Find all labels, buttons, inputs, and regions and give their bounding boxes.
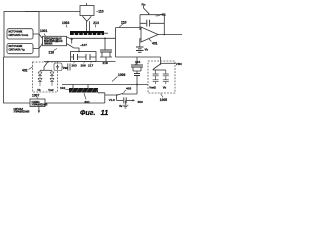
svg-text:ВОЛНОВОДНАЯ: ВОЛНОВОДНАЯ xyxy=(44,40,63,43)
svg-text:СИГНАЛА Vg: СИГНАЛА Vg xyxy=(9,49,26,52)
svg-text:Vb: Vb xyxy=(163,86,167,90)
svg-text:Va: Va xyxy=(119,104,123,108)
svg-text:206: 206 xyxy=(81,64,86,68)
svg-text:VLC: VLC xyxy=(109,98,116,102)
svg-text:ПЕРЕДАЮЩАЯ: ПЕРЕДАЮЩАЯ xyxy=(44,37,62,40)
svg-text:102: 102 xyxy=(60,86,65,90)
svg-text:1005: 1005 xyxy=(160,98,168,102)
svg-text:218: 218 xyxy=(103,61,108,65)
svg-text:VRC: VRC xyxy=(176,62,182,66)
svg-text:203: 203 xyxy=(72,64,77,68)
svg-text:СХЕМА: СХЕМА xyxy=(32,101,41,104)
svg-text:Фиг.: Фиг. xyxy=(80,110,95,117)
svg-text:401: 401 xyxy=(152,41,158,45)
svg-text:C1: C1 xyxy=(162,12,166,16)
svg-text:1007: 1007 xyxy=(32,93,40,97)
svg-text:601: 601 xyxy=(85,100,90,104)
svg-text:УПРАВЛЕНИЯ: УПРАВЛЕНИЯ xyxy=(14,110,30,113)
svg-text:405: 405 xyxy=(126,87,131,91)
svg-text:1006: 1006 xyxy=(118,73,126,77)
svg-text:Vref2: Vref2 xyxy=(149,86,156,90)
svg-text:УПРАВЛЕНИЯ: УПРАВЛЕНИЯ xyxy=(32,103,48,106)
svg-text:~110: ~110 xyxy=(96,10,103,14)
svg-text:11: 11 xyxy=(101,108,109,117)
svg-text:503: 503 xyxy=(138,100,143,104)
svg-text:Vb: Vb xyxy=(37,88,41,92)
svg-text:210: 210 xyxy=(121,20,127,24)
svg-text:СИГНАЛ: СИГНАЛ xyxy=(14,108,24,111)
svg-text:СИГНАЛА Vcom: СИГНАЛА Vcom xyxy=(9,34,30,37)
svg-text:Rc: Rc xyxy=(142,3,146,7)
svg-text:214: 214 xyxy=(93,21,99,25)
svg-text:402: 402 xyxy=(22,69,28,73)
svg-text:ЛИНИЯ: ЛИНИЯ xyxy=(44,44,53,46)
svg-text:218: 218 xyxy=(49,51,55,55)
svg-text:V90: V90 xyxy=(63,66,69,70)
svg-text:1003: 1003 xyxy=(62,21,70,25)
svg-text:Vb: Vb xyxy=(145,47,149,51)
svg-text:104: 104 xyxy=(135,60,140,64)
svg-text:Vref: Vref xyxy=(48,88,53,92)
svg-text:217: 217 xyxy=(88,64,93,68)
svg-text:~107: ~107 xyxy=(80,43,87,47)
svg-text:1001: 1001 xyxy=(40,29,48,33)
